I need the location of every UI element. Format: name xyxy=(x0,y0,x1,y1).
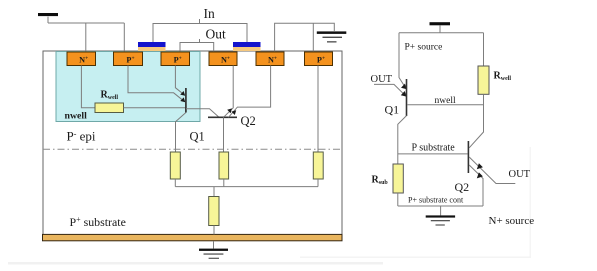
wire Q2 emitter to N+ source xyxy=(229,66,271,118)
svg-text:P+ substrate cont: P+ substrate cont xyxy=(408,196,464,205)
VDD power bar top-left xyxy=(38,13,58,16)
gate G2 polysilicon (NMOS) xyxy=(233,42,261,51)
wire bottom rail schematic xyxy=(398,205,483,207)
diffusion P+ source (PMOS) xyxy=(114,52,143,66)
svg-text:P substrate: P substrate xyxy=(412,142,456,153)
wire Q2 emitter to ground rail xyxy=(469,165,483,206)
wire VDD stem xyxy=(47,17,49,23)
transistor Q1 base bar xyxy=(185,88,187,113)
wire Rwell to Q1 base xyxy=(124,107,186,109)
epi/substrate boundary dash-dot line xyxy=(43,148,342,150)
arrow on Q2 ground emitter xyxy=(477,172,483,178)
gate G1 polysilicon (PMOS) xyxy=(138,42,166,51)
svg-text:P+ source: P+ source xyxy=(405,43,443,53)
wire Out bracket to P+ and N+ drains xyxy=(180,43,214,53)
wire Q2 emitter to N+ drain xyxy=(224,66,233,117)
svg-text:Rsub: Rsub xyxy=(372,175,389,187)
diffusion P+ drain (PMOS) xyxy=(161,52,190,66)
arrow OUT into Q1 xyxy=(401,91,407,97)
wire In rail to both gates xyxy=(153,24,247,43)
wire In tick xyxy=(199,19,201,24)
wire to substrate resistor xyxy=(213,187,215,197)
svg-text:Rwell: Rwell xyxy=(494,71,512,83)
svg-text:nwell: nwell xyxy=(435,96,456,106)
resistor Rwell xyxy=(95,103,124,113)
svg-text:Out: Out xyxy=(206,27,226,42)
wire Rsub to bottom rail xyxy=(397,193,399,206)
ground symbol top right xyxy=(317,31,347,42)
wire VDD rail to N+ and P+ contacts xyxy=(48,23,124,52)
wire left branch to Q1 emitter xyxy=(399,33,406,89)
transistor Q2 bar schematic xyxy=(467,141,469,173)
wire VSS rail top right xyxy=(275,23,335,52)
wire P+ drain to Q1 emitter xyxy=(175,66,184,95)
resistor epi R2 xyxy=(219,152,229,179)
arrow Q1 emitter xyxy=(401,84,407,90)
wire Q1 base to Q2 xyxy=(186,109,219,118)
arrow into Q1 emitter (from drain) xyxy=(180,91,185,96)
wire OUT to Q1 emitter xyxy=(374,84,406,96)
svg-text:OUT: OUT xyxy=(371,74,393,85)
resistor Rwell schematic xyxy=(478,66,489,94)
wire Rwell to Q2 collector xyxy=(469,94,483,148)
svg-text:OUT: OUT xyxy=(509,169,531,180)
diffusion N+ source (NMOS) xyxy=(256,52,284,66)
wire Q1 collector to Rsub xyxy=(398,116,407,164)
svg-text:N+ source: N+ source xyxy=(489,215,535,227)
wire P+ source to Q1 emitter xyxy=(128,66,184,102)
wire N+ tap to Rwell xyxy=(81,66,95,108)
arrow Q2 emitter (to drain) xyxy=(227,108,232,113)
diffusion P+ substrate tap xyxy=(305,52,333,66)
P+ substrate backside contact bar xyxy=(43,234,343,240)
wire P substrate base line xyxy=(398,153,468,155)
resistor epi R3 xyxy=(313,152,323,179)
transistor Q2 base bar xyxy=(208,116,237,118)
svg-text:P- epi: P- epi xyxy=(67,128,96,143)
transistor Q1 bar schematic xyxy=(406,79,408,116)
wire top rail schematic xyxy=(399,32,484,34)
svg-text:Q1: Q1 xyxy=(190,130,205,144)
diffusion N+ well tap xyxy=(67,52,96,66)
diffusion N+ drain (NMOS) xyxy=(209,52,237,66)
wire ground stem schematic xyxy=(440,206,442,215)
wire Q2 emitter to OUT xyxy=(469,157,515,184)
ground symbol schematic xyxy=(426,215,455,225)
resistor substrate R4 xyxy=(209,197,219,226)
wire R4 to backside contact xyxy=(213,226,215,235)
svg-text:Q2: Q2 xyxy=(455,180,470,194)
svg-text:Q1: Q1 xyxy=(385,103,400,117)
svg-text:In: In xyxy=(204,6,215,21)
nwell region xyxy=(56,52,200,122)
wire P+ substrate tap down xyxy=(317,66,319,153)
wire right branch to Rwell xyxy=(483,33,485,66)
resistor Rsub xyxy=(393,164,403,193)
wire backside to ground xyxy=(213,241,215,249)
wire Out tick xyxy=(199,39,201,43)
arrow into Q1 emitter (from source) xyxy=(180,97,185,102)
VDD power bar schematic xyxy=(430,22,451,25)
wire resistor bottoms rail xyxy=(175,179,318,187)
wire Q1 collector down xyxy=(176,113,186,153)
ground symbol bottom xyxy=(199,249,228,259)
wire nwell base line xyxy=(407,104,483,106)
arrow Q2 emitter (to source) xyxy=(231,110,236,115)
svg-text:nwell: nwell xyxy=(65,111,88,122)
substrate cross-section outline xyxy=(43,51,342,235)
arrow on Q2 OUT emitter xyxy=(477,163,483,169)
svg-text:Q2: Q2 xyxy=(241,114,256,128)
resistor epi R1 xyxy=(170,152,180,179)
wire Q2 collector down xyxy=(223,117,225,152)
wire VDD stem schematic xyxy=(439,25,441,32)
